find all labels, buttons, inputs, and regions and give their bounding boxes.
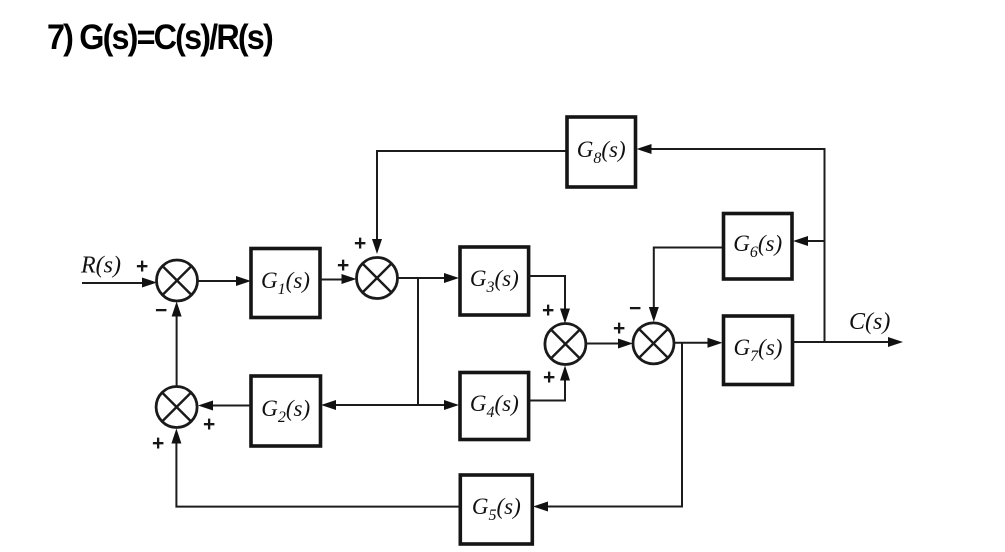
svg-text:+: + — [354, 232, 366, 255]
wire S5 output up into S1 bottom — [172, 302, 182, 387]
summing junction S4 — [633, 323, 674, 364]
wire G1 output to summing junction S2 — [320, 274, 357, 284]
block G5 — [460, 475, 532, 544]
summing junction S2 — [357, 258, 398, 299]
summing junction S5 — [156, 387, 197, 428]
svg-text:+: + — [136, 255, 148, 278]
wire G8 output down into S2 top — [372, 151, 567, 254]
wire G3 output right and down into S3 top — [529, 276, 570, 324]
svg-text:G7(s): G7(s) — [734, 335, 783, 365]
wire G5 output left and up into S5 bottom — [171, 429, 460, 507]
wire feedback from output node up to G8 input — [637, 144, 825, 342]
svg-text:+: + — [542, 299, 554, 322]
svg-text:G3(s): G3(s) — [470, 266, 519, 296]
svg-text:−: − — [155, 299, 167, 322]
block G4 — [460, 373, 529, 440]
wire S3 output to summing junction S4 — [586, 339, 633, 349]
wire R(s) input into summing junction S1 — [82, 278, 157, 288]
svg-text:G6(s): G6(s) — [733, 231, 782, 261]
svg-text:+: + — [337, 254, 349, 277]
svg-text:+: + — [152, 432, 164, 455]
wire S1 output to block G1 — [198, 276, 252, 286]
wire branch from feedback line into G6 input — [793, 236, 825, 246]
svg-text:G5(s): G5(s) — [472, 494, 521, 524]
block G2 — [251, 376, 321, 446]
wire S4 output to block G7 with takeoff node down — [674, 338, 723, 348]
wire takeoff after S4 down to G5 input — [533, 343, 682, 512]
block G8 — [567, 117, 636, 187]
wire row3 from node right into G4 input — [418, 400, 459, 410]
summing junction S3 — [545, 324, 586, 365]
wire S2 output to block G3 with takeoff node — [398, 273, 460, 283]
block G7 — [724, 316, 793, 385]
svg-text:C(s): C(s) — [849, 309, 890, 335]
svg-text:+: + — [613, 317, 625, 340]
wire row3 from node left into G2 input — [321, 400, 418, 410]
svg-text:G4(s): G4(s) — [470, 391, 519, 421]
svg-text:G8(s): G8(s) — [577, 137, 626, 167]
block G1 — [251, 249, 320, 318]
wire takeoff node after S2 down to G2/G4 row — [417, 278, 419, 405]
svg-text:R(s): R(s) — [80, 253, 121, 279]
svg-text:G1(s): G1(s) — [261, 268, 310, 298]
svg-text:−: − — [629, 297, 641, 320]
svg-text:G2(s): G2(s) — [261, 396, 310, 426]
title text 7) G(s)=C(s)/R(s) — [47, 18, 272, 58]
wire G2 output left into S5 right — [198, 401, 251, 411]
wire G7 output to C(s) with feedback node — [793, 337, 904, 347]
block G3 — [460, 247, 529, 315]
svg-text:+: + — [203, 413, 215, 436]
svg-text:+: + — [543, 366, 555, 389]
summing junction S1 — [157, 260, 198, 301]
block G6 — [724, 214, 793, 280]
wire G6 output left and down into S4 top — [649, 248, 724, 323]
wire G4 output right and up into S3 bottom — [529, 366, 570, 401]
